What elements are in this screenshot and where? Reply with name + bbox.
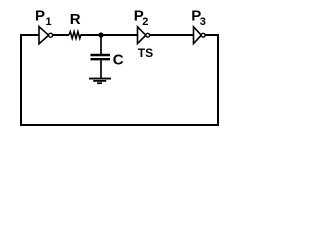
svg-text:C: C [113,51,124,68]
svg-text:R: R [70,11,81,28]
svg-text:TS: TS [138,46,153,60]
svg-text:3: 3 [200,16,206,28]
svg-text:1: 1 [46,16,52,28]
svg-text:2: 2 [142,16,148,28]
svg-text:P: P [35,7,45,24]
